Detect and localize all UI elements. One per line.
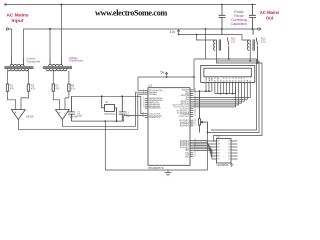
svg-text:+: + <box>14 111 16 115</box>
label R1 47k <box>10 85 15 91</box>
node line2 relay1 junction <box>205 28 223 30</box>
wire VT primary left from line 2 <box>49 29 51 58</box>
svg-text:RD2/PSP2: RD2/PSP2 <box>180 126 189 128</box>
svg-text:14: 14 <box>244 77 246 79</box>
driver U2 ULN2003A body <box>217 139 232 164</box>
svg-text:CRYSTAL: CRYSTAL <box>104 113 116 116</box>
svg-text:25: 25 <box>194 115 196 117</box>
wire R4 to op-amp U4 minus input <box>65 91 69 109</box>
svg-text:GND: GND <box>185 156 190 158</box>
svg-text:Transformer: Transformer <box>27 59 41 63</box>
input terminal T_L2 <box>6 28 8 30</box>
wire W1 switch RL1 to lower bus <box>194 59 257 130</box>
pins ULN outputs right <box>231 141 238 159</box>
resistor R1 <box>6 84 8 91</box>
svg-text:10: 10 <box>142 116 144 118</box>
microcontroller U1 PIC16F877A body <box>148 88 190 166</box>
svg-text:Out: Out <box>266 15 274 20</box>
label PIC16F877A <box>148 166 164 170</box>
wire W2 relay RL2 coil to pot bus <box>208 50 260 132</box>
label LCD pin numbers row <box>206 77 252 79</box>
label AC Mains Out <box>260 10 280 20</box>
label C2 33pf <box>77 112 82 118</box>
wire CT primary right to line 2 <box>24 29 258 58</box>
node W3 switch RL2 junction <box>257 62 259 64</box>
ground symbol <box>165 170 172 176</box>
wire R2 to op-amp U3 minus input <box>21 91 29 109</box>
wire TR1 secondary right to R2 <box>28 71 30 84</box>
power 5v symbol <box>165 72 168 78</box>
potentiometer RV1 LCD contrast <box>198 91 207 132</box>
svg-text:www.electroSome.com: www.electroSome.com <box>95 9 167 18</box>
svg-text:9: 9 <box>229 77 230 79</box>
label Voltage Transformer <box>69 56 83 63</box>
node W1 junction <box>228 58 230 60</box>
label R2 47k <box>31 85 36 91</box>
wire TR2 secondary right to R4 <box>68 71 70 84</box>
wire line2 tap x205.5 <box>205 29 207 59</box>
svg-text:AC Mains: AC Mains <box>6 12 29 18</box>
svg-text:12V: 12V <box>261 41 266 44</box>
wire relay RL2 coil feed <box>242 35 250 41</box>
label X1 CRYSTAL <box>104 101 116 116</box>
svg-text:12V: 12V <box>231 41 236 44</box>
wire crystal top rail to PIC OSC1 <box>71 96 144 113</box>
capacitor CP1 power factor <box>219 5 226 30</box>
node 12v rail junction <box>196 34 198 36</box>
node cap CP2 junctions <box>252 4 254 30</box>
resistor R3 <box>52 84 54 91</box>
wire crystal bottom rail to PIC OSC2 <box>71 116 144 122</box>
svg-text:12: 12 <box>238 77 240 79</box>
svg-text:31: 31 <box>194 155 196 157</box>
label RL1 12V <box>231 38 236 44</box>
svg-text:10: 10 <box>232 77 234 79</box>
svg-text:13: 13 <box>241 77 243 79</box>
svg-text:9: 9 <box>143 107 144 109</box>
label R4 47k <box>71 85 76 91</box>
svg-text:5: 5 <box>217 77 218 79</box>
node bus A junctions <box>199 90 210 92</box>
relay RL2 switch <box>253 29 257 63</box>
wire AC line 2 left <box>8 29 11 58</box>
label Current Transformer <box>27 57 41 64</box>
wire TR2 secondary left to R3 <box>52 71 54 84</box>
label RL2 12V <box>261 38 266 44</box>
wire PIC to ULN inputs <box>193 141 216 159</box>
relay RL1 coil <box>214 39 221 50</box>
svg-text:Capacitors: Capacitors <box>231 22 248 26</box>
wire VT primary right riser from line 1 <box>61 5 63 59</box>
svg-text:LM358: LM358 <box>26 116 34 119</box>
ground ULN emitter <box>230 163 233 166</box>
capacitor C1 <box>119 96 126 121</box>
wire op-amp U4 output to PIC RA0 <box>62 92 144 126</box>
output terminal AC out <box>258 28 262 30</box>
svg-text:RE2/AN7/CS: RE2/AN7/CS <box>149 116 161 119</box>
node crystal top junction <box>101 95 123 97</box>
label Power Factor Correcting Capacitors <box>231 10 248 26</box>
resistor R4 <box>68 84 70 91</box>
label C1 33pf <box>126 112 131 118</box>
svg-text:RC6/TX/CK: RC6/TX/CK <box>179 116 190 118</box>
svg-text:Transformer: Transformer <box>69 59 83 63</box>
wire ground riser from crystal rail <box>104 121 106 170</box>
label LCD pin names row <box>206 77 252 82</box>
svg-text:RE1/AN6/WR: RE1/AN6/WR <box>149 107 161 110</box>
svg-text:PIC16F877A: PIC16F877A <box>148 166 164 170</box>
pins U1 left side <box>145 90 148 117</box>
label R3 47k <box>56 85 61 91</box>
label ULN2003A <box>217 164 229 167</box>
label LM358 a <box>26 116 34 119</box>
wire R3 to op-amp U4 plus input <box>53 91 59 109</box>
svg-text:11: 11 <box>235 77 237 79</box>
wire PIC to LCD data fan <box>193 87 250 107</box>
capacitor CP2 power factor <box>249 5 256 30</box>
wire 12v rail feed vertical x194 <box>193 59 195 91</box>
wire ground bus bottom <box>105 169 207 171</box>
LCD display LCD1 body <box>201 65 255 82</box>
transformer TR1 current transformer <box>4 58 33 71</box>
wire R1 to op-amp U3 plus input <box>8 91 16 109</box>
wire 5v supply to PIC MCLR and LCD <box>138 77 194 90</box>
resistor R2 <box>27 84 29 91</box>
svg-text:16: 16 <box>249 77 251 79</box>
label AC Mains Input <box>6 12 29 24</box>
svg-text:21: 21 <box>194 125 196 127</box>
node junction line1 x61.5 <box>61 4 63 6</box>
label U1 <box>148 84 152 88</box>
node pot ground junction <box>207 132 209 134</box>
svg-text:AC Mains: AC Mains <box>260 10 280 15</box>
svg-text:Input: Input <box>12 18 24 24</box>
op-amp U4 LM358 <box>56 110 70 120</box>
pins U1 right side <box>190 90 193 157</box>
relay RL2 coil <box>247 39 254 50</box>
wire LCD ground bus B <box>215 93 236 95</box>
wire W3 relay RL1 coil to ULN <box>214 50 263 141</box>
capacitor C2 <box>68 96 75 121</box>
wire ground riser right <box>207 133 209 171</box>
pins LCD stubs <box>206 82 250 93</box>
wire LCD ground bus A <box>194 90 212 92</box>
node bus B junctions <box>220 93 234 95</box>
input terminal T_L1 <box>5 4 9 6</box>
label 12v <box>170 30 176 34</box>
label ULN pin names right <box>228 141 231 161</box>
transformer TR2 voltage transformer <box>43 58 72 71</box>
crystal X1 <box>102 96 117 121</box>
op-amp U3 LM358 <box>12 110 26 120</box>
relay RL1 switch <box>222 29 229 59</box>
svg-text:12v: 12v <box>170 30 176 34</box>
node cap CP1 junctions <box>221 4 223 6</box>
svg-text:3: 3 <box>143 93 144 95</box>
svg-text:U1: U1 <box>148 84 152 88</box>
label U1 left pin names <box>149 90 164 119</box>
node junction line2 x50 <box>49 28 51 30</box>
label LM358 b <box>70 116 78 119</box>
label U1 right pin numbers <box>194 88 196 157</box>
label U1 left pin numbers <box>142 89 144 118</box>
svg-text:ULN2003A: ULN2003A <box>217 164 229 167</box>
label 5v <box>161 71 165 75</box>
label website <box>95 9 167 18</box>
wire relay RL1 coil feed <box>197 35 217 41</box>
wire op-amp U3 output to PIC RA1 <box>18 94 144 129</box>
svg-text:15: 15 <box>246 77 248 79</box>
svg-text:4: 4 <box>214 77 215 79</box>
svg-text:33pf: 33pf <box>77 115 82 118</box>
power 12v symbol <box>177 30 180 36</box>
svg-text:RA1/AN1: RA1/AN1 <box>149 93 157 96</box>
wire TR1 secondary left to R1 <box>7 71 9 84</box>
svg-text:5v: 5v <box>161 71 165 75</box>
label U1 right pin names <box>172 90 189 159</box>
node crystal bottom junction <box>104 120 117 122</box>
wire AC line 1 <box>8 4 256 6</box>
label U2 <box>217 135 221 139</box>
wire 12v rail <box>179 34 243 36</box>
svg-text:33pf: 33pf <box>126 115 131 118</box>
label ULN pin names left <box>217 141 220 161</box>
node 5v at x194 <box>193 76 195 78</box>
svg-text:+: + <box>58 111 60 115</box>
